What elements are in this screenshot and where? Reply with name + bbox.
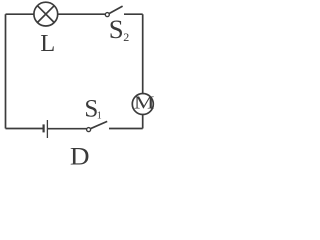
wire: right vertical lower <box>142 115 144 129</box>
wire: top-left corner to lamp <box>6 13 34 15</box>
svg-text:D: D <box>70 143 90 165</box>
svg-text:1: 1 <box>97 111 102 122</box>
wire: S2 to top-right corner <box>124 13 143 15</box>
switch S1 pivot <box>87 128 91 132</box>
wire: left vertical <box>5 14 7 128</box>
svg-text:2: 2 <box>123 30 129 44</box>
wire: bottom-left corner to battery <box>6 128 43 130</box>
svg-text:L: L <box>40 30 55 57</box>
switch S2 lever <box>109 6 122 13</box>
battery D long thin plate <box>46 120 48 138</box>
motor M <box>132 94 153 115</box>
wire: bottom-right corner to S1 <box>109 128 143 130</box>
switch S1 lever <box>90 121 107 128</box>
switch S2 pivot <box>105 13 109 17</box>
wire: battery to S1 <box>48 128 87 130</box>
battery D short thick plate <box>42 124 44 132</box>
wire: lamp to switch S2 <box>58 13 105 15</box>
svg-text:M: M <box>134 94 155 113</box>
svg-text:S: S <box>109 14 124 44</box>
lamp L <box>34 2 58 26</box>
wire: right vertical upper <box>142 14 144 93</box>
